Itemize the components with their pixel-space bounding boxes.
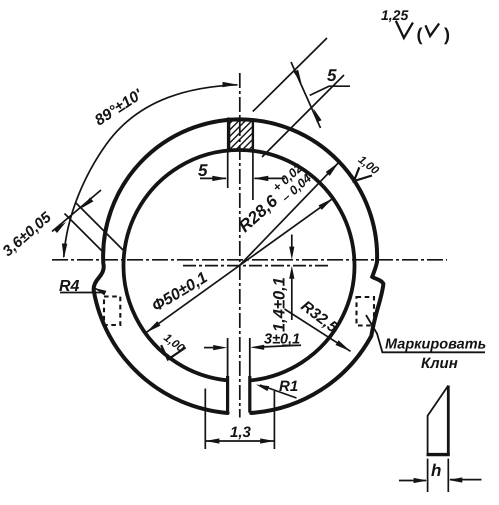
svg-text:5: 5 bbox=[327, 66, 337, 85]
svg-text:1,4±0,1: 1,4±0,1 bbox=[271, 277, 289, 332]
svg-text:1,3: 1,3 bbox=[230, 424, 252, 441]
svg-text:(: ( bbox=[417, 25, 423, 45]
svg-text:R4: R4 bbox=[59, 278, 80, 295]
svg-text:3±0,1: 3±0,1 bbox=[264, 332, 300, 348]
svg-text:): ) bbox=[444, 25, 450, 45]
svg-text:h: h bbox=[431, 461, 441, 480]
svg-text:R1: R1 bbox=[279, 378, 298, 395]
svg-text:Маркировать: Маркировать bbox=[385, 337, 486, 353]
svg-text:Клин: Клин bbox=[421, 355, 458, 372]
svg-text:1,25: 1,25 bbox=[381, 7, 408, 23]
svg-text:5: 5 bbox=[198, 161, 208, 180]
